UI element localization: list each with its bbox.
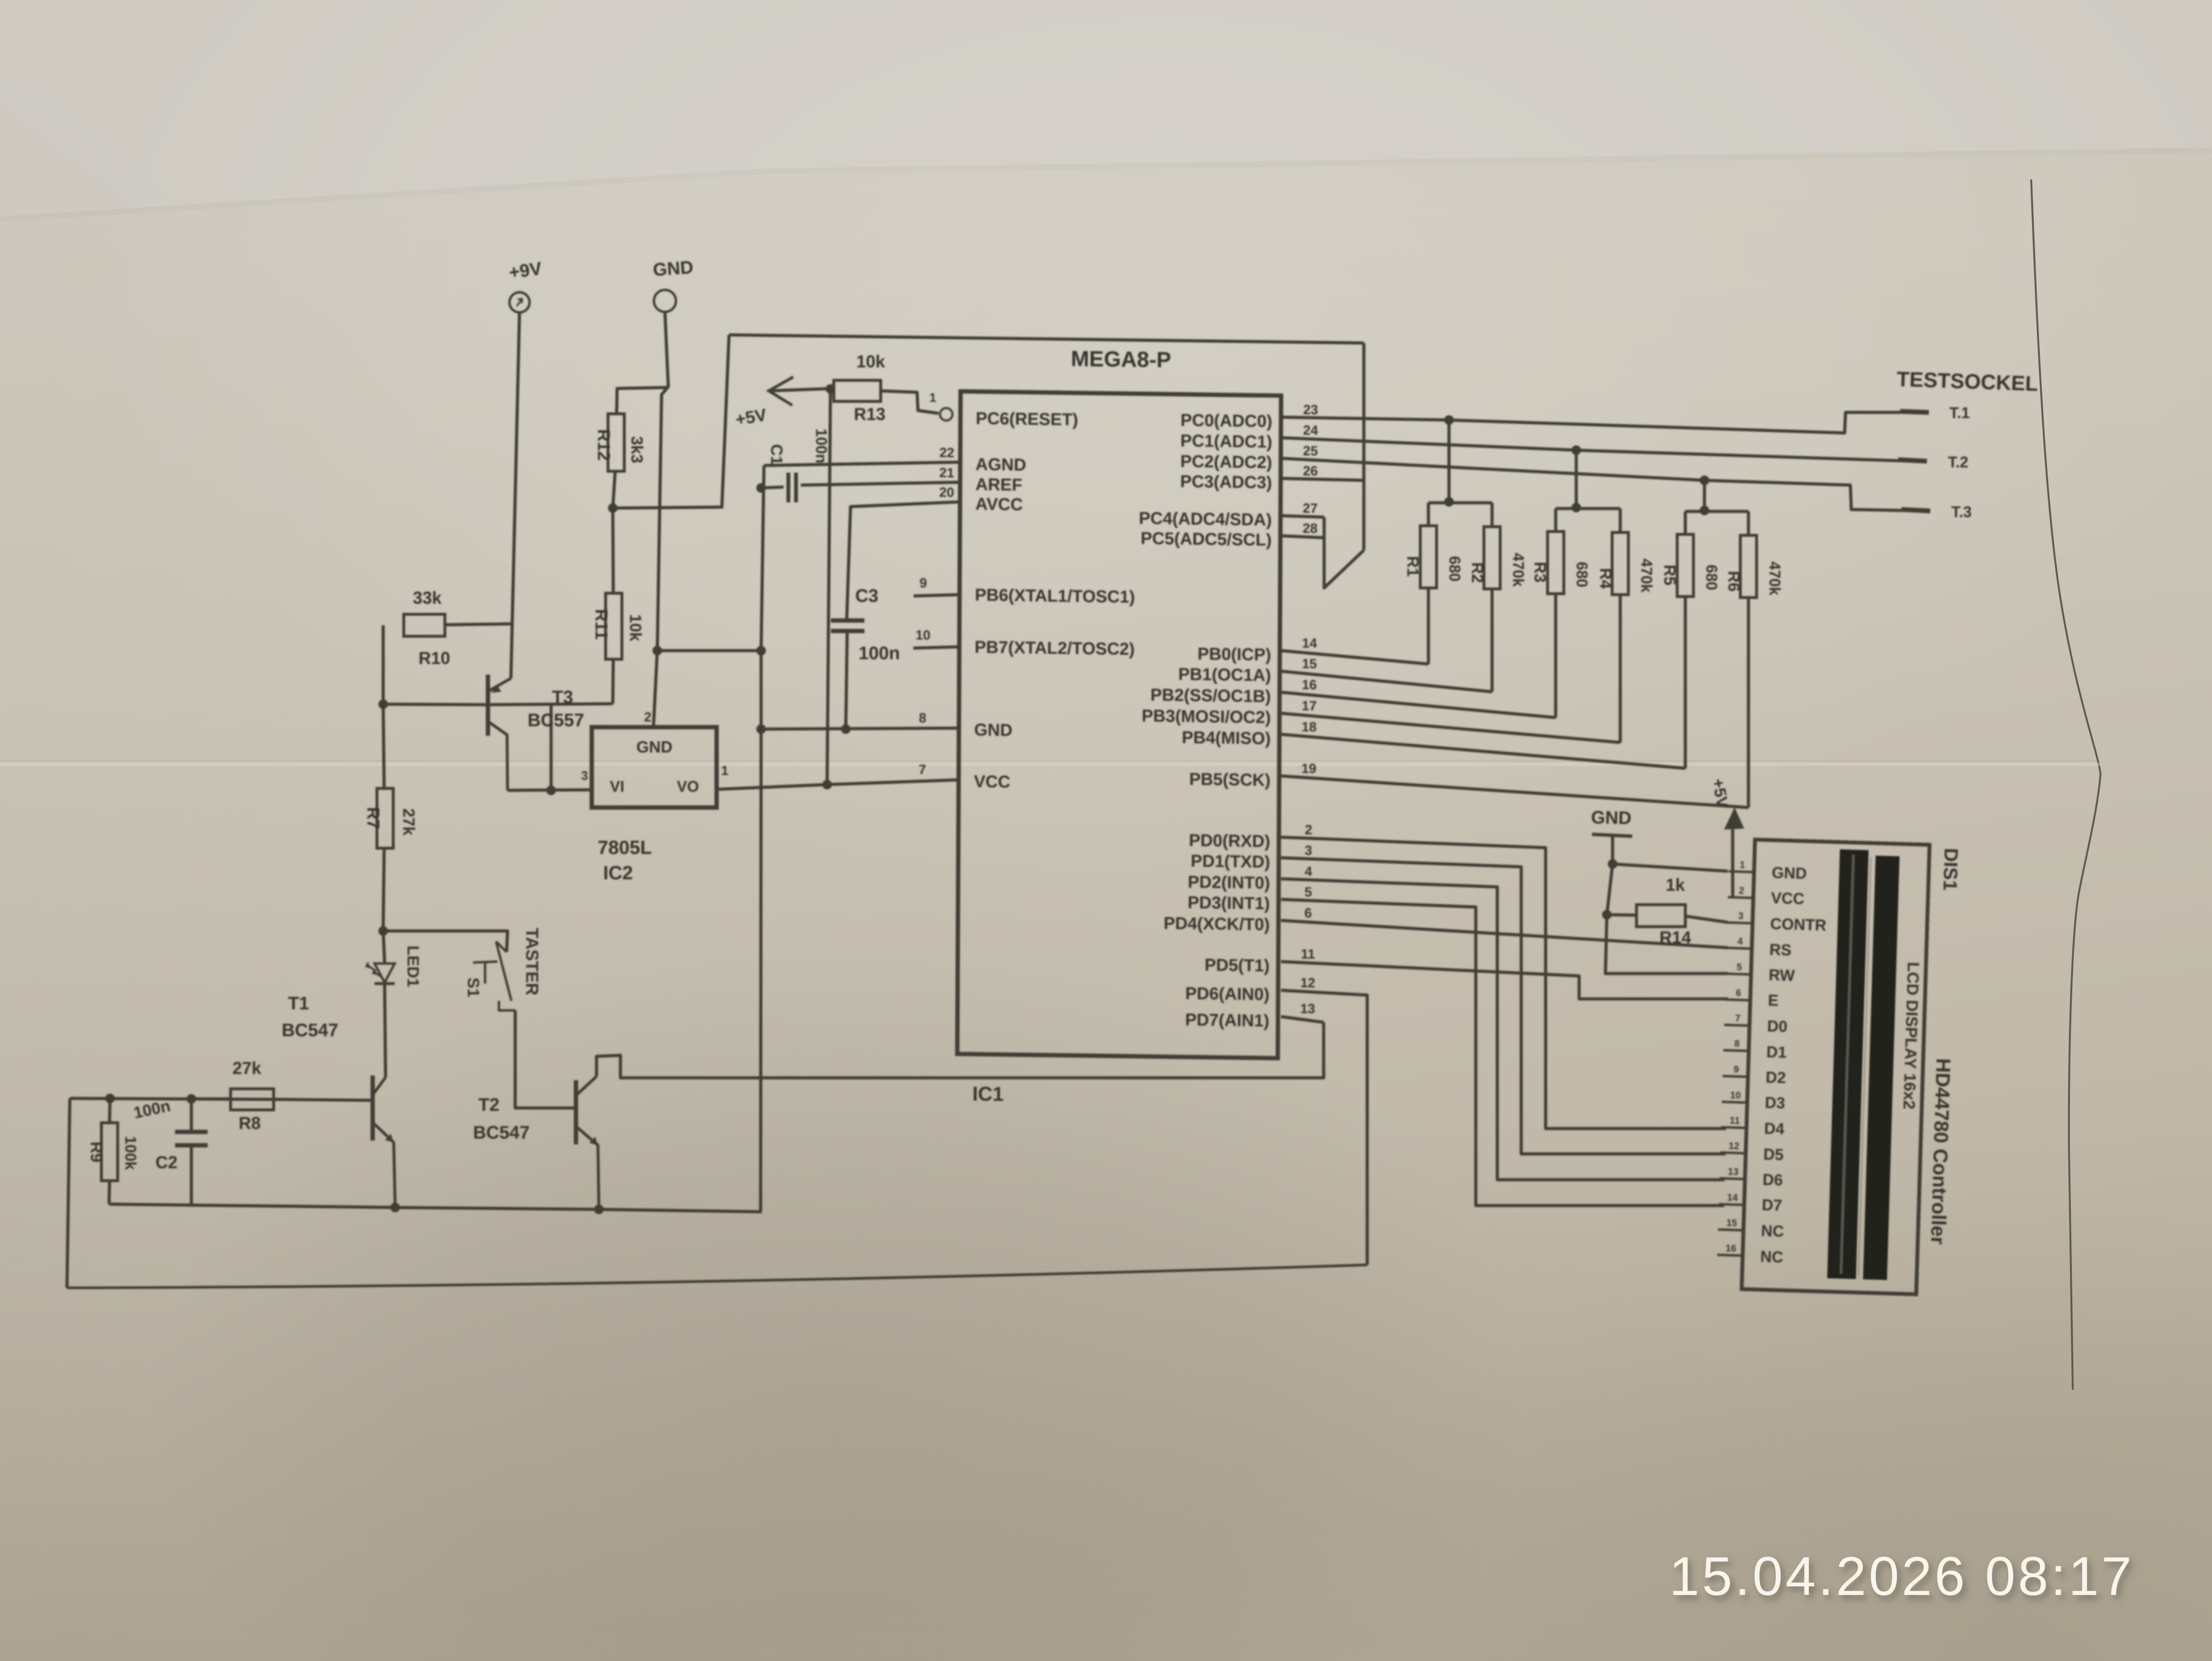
wire GND column x1590 xyxy=(761,465,764,1212)
wire R3/R4 bracket xyxy=(1556,507,1620,510)
photographer shadow bottom-left xyxy=(144,942,1531,1661)
svg-text:E: E xyxy=(1768,991,1779,1009)
svg-text:D7: D7 xyxy=(1762,1196,1782,1214)
svg-text:PB3(MOSI/OC2): PB3(MOSI/OC2) xyxy=(1142,706,1271,727)
LCD pin 16 NC xyxy=(1717,1255,1743,1256)
resistor R5 680 xyxy=(1677,534,1693,597)
svg-text:R1: R1 xyxy=(1404,556,1422,576)
LED LED1 xyxy=(383,931,385,963)
wire R7 column xyxy=(383,704,384,788)
capacitor C1 100n (AREF) xyxy=(761,487,784,488)
svg-text:20: 20 xyxy=(939,485,954,499)
svg-text:17: 17 xyxy=(1302,698,1316,713)
svg-text:TASTER: TASTER xyxy=(522,928,542,995)
LCD glass row 1 (dark bar) xyxy=(1827,849,1869,1279)
resistor R9 100k xyxy=(110,1098,110,1123)
wire R8 left xyxy=(191,1097,231,1101)
wire R14 right to LCD CONTR xyxy=(1685,916,1728,922)
svg-text:27: 27 xyxy=(1303,501,1317,516)
svg-text:D1: D1 xyxy=(1766,1043,1787,1061)
resistor R14 1k xyxy=(1637,905,1685,927)
svg-text:10: 10 xyxy=(916,628,930,642)
wire pin19 PB5 row to R6 xyxy=(1281,776,1748,808)
svg-text:AVCC: AVCC xyxy=(975,494,1023,514)
wire pin16 PB2 row to R3 xyxy=(1281,692,1556,718)
wire T3 collector to 7805 VI xyxy=(508,790,592,790)
wire pin26 PC3 to frame edge xyxy=(1281,478,1364,480)
svg-text:D0: D0 xyxy=(1767,1017,1788,1035)
svg-text:100n: 100n xyxy=(813,429,830,464)
svg-text:PD4(XCK/T0): PD4(XCK/T0) xyxy=(1163,913,1270,934)
wire R2 bottom to pin15 row xyxy=(1491,589,1494,692)
wire pin14 PB0 row to R1 xyxy=(1281,651,1428,664)
svg-text:D6: D6 xyxy=(1762,1171,1783,1189)
resistor R13 10k xyxy=(834,380,881,401)
wire IC1 frame top (R12 net to PC5) xyxy=(729,335,1364,343)
svg-text:15.04.2026 08:17: 15.04.2026 08:17 xyxy=(1669,1546,2134,1607)
svg-text:14: 14 xyxy=(1727,1193,1738,1204)
push button S1 TASTER xyxy=(496,941,507,952)
wire T2 collector staircase to PD7 net xyxy=(597,1022,1324,1078)
wire pin3 PD1 to LCD D5 xyxy=(1281,858,1725,1154)
svg-text:10k: 10k xyxy=(856,352,885,371)
svg-text:1: 1 xyxy=(721,763,729,778)
svg-text:PD0(RXD): PD0(RXD) xyxy=(1189,830,1270,851)
svg-text:D3: D3 xyxy=(1765,1094,1785,1112)
wire R12 bottom to junction xyxy=(613,471,615,508)
terminal T.2 xyxy=(1898,460,1927,461)
svg-text:4: 4 xyxy=(1737,936,1743,947)
svg-text:4: 4 xyxy=(1305,864,1312,879)
voltage regulator IC2 7805L xyxy=(592,727,717,808)
wire +5V column to VCC rail xyxy=(827,389,830,785)
wire GND to LCD pin1 xyxy=(1613,864,1728,871)
LCD pin 3 CONTR xyxy=(1727,922,1753,923)
wire R7 bottom to LED/S1 junction xyxy=(383,848,384,930)
svg-text:23: 23 xyxy=(1303,402,1318,417)
svg-text:GND: GND xyxy=(1771,864,1807,882)
resistor R1 680 xyxy=(1420,526,1437,588)
svg-text:9: 9 xyxy=(1734,1064,1739,1075)
svg-text:R6: R6 xyxy=(1725,571,1743,591)
svg-text:R11: R11 xyxy=(592,609,611,640)
wire pin17 PB3 row to R4 xyxy=(1281,713,1620,742)
resistor R4 470k xyxy=(1612,532,1628,595)
wire LED1 to T1 collector xyxy=(385,984,386,1077)
wire R5 bottom to pin18 row xyxy=(1684,597,1687,768)
reset pin inversion circle pin1 xyxy=(940,408,952,421)
svg-text:R9: R9 xyxy=(87,1141,105,1162)
svg-text:GND: GND xyxy=(1591,808,1632,828)
wire junction to IC1 frame left xyxy=(613,335,729,508)
wire S1 to T2 base xyxy=(515,1010,574,1108)
svg-text:15: 15 xyxy=(1726,1218,1737,1229)
svg-text:3k3: 3k3 xyxy=(628,436,646,464)
svg-text:R10: R10 xyxy=(419,648,450,668)
capacitor C3 100n xyxy=(831,619,864,623)
svg-text:16: 16 xyxy=(1725,1243,1736,1254)
svg-text:1: 1 xyxy=(929,390,936,405)
resistor R8 27k xyxy=(231,1089,274,1110)
svg-text:24: 24 xyxy=(1303,423,1318,438)
svg-text:T2: T2 xyxy=(478,1095,499,1115)
wire GND cross row xyxy=(657,649,761,653)
LCD pin 6 E xyxy=(1725,999,1750,1000)
svg-text:AGND: AGND xyxy=(975,454,1026,474)
wire pin27 stub xyxy=(1281,516,1324,517)
svg-text:DIS1: DIS1 xyxy=(1939,848,1962,891)
power terminal GND xyxy=(654,290,676,312)
svg-text:D2: D2 xyxy=(1765,1068,1786,1086)
svg-text:13: 13 xyxy=(1300,1001,1315,1016)
wire R5/R6 bracket xyxy=(1685,510,1748,513)
svg-text:RS: RS xyxy=(1769,941,1792,959)
svg-text:CONTR: CONTR xyxy=(1770,915,1827,934)
svg-text:100n: 100n xyxy=(859,643,900,664)
svg-text:LED1: LED1 xyxy=(404,946,422,987)
svg-text:C2: C2 xyxy=(155,1152,177,1172)
svg-text:GND: GND xyxy=(636,738,673,756)
svg-text:MEGA8-P: MEGA8-P xyxy=(1071,346,1171,372)
svg-text:T.1: T.1 xyxy=(1949,404,1970,421)
svg-text:26: 26 xyxy=(1303,464,1318,478)
svg-text:PC1(ADC1): PC1(ADC1) xyxy=(1180,431,1272,452)
svg-text:6: 6 xyxy=(1305,906,1312,920)
svg-text:10: 10 xyxy=(1730,1090,1741,1101)
LCD display DIS1 box xyxy=(1742,840,1930,1294)
terminal T.1 xyxy=(1900,411,1929,412)
terminal T.3 xyxy=(1902,509,1930,511)
svg-text:7: 7 xyxy=(1735,1013,1741,1024)
wire pin28 stub xyxy=(1281,536,1324,538)
svg-text:PD2(INT0): PD2(INT0) xyxy=(1188,872,1270,892)
wire R3 bottom to pin16 row xyxy=(1554,594,1558,718)
wire pin18 PB4 row to R5 xyxy=(1281,734,1685,768)
wire C3 bottom xyxy=(846,631,847,729)
wire input node top xyxy=(70,1098,275,1099)
wire pin12 PD6 down and around xyxy=(1281,990,1367,1265)
LCD pin 2 VCC xyxy=(1728,897,1753,898)
svg-text:VCC: VCC xyxy=(1771,889,1805,908)
svg-text:R4: R4 xyxy=(1596,568,1615,589)
svg-text:R3: R3 xyxy=(1531,562,1549,582)
svg-text:27k: 27k xyxy=(399,808,418,836)
svg-text:PB4(MISO): PB4(MISO) xyxy=(1182,727,1271,748)
svg-text:11: 11 xyxy=(1729,1116,1740,1127)
wire pin15 PB1 row to R2 xyxy=(1281,671,1492,692)
svg-text:AREF: AREF xyxy=(975,474,1022,494)
svg-text:R5: R5 xyxy=(1660,565,1679,585)
svg-text:C1: C1 xyxy=(767,444,785,465)
svg-text:2: 2 xyxy=(1739,886,1745,896)
svg-text:R2: R2 xyxy=(1468,562,1486,583)
svg-text:16: 16 xyxy=(1302,677,1316,692)
wire drop to R3/R4 bracket xyxy=(1575,450,1578,508)
svg-text:PB2(SS/OC1B): PB2(SS/OC1B) xyxy=(1150,685,1271,706)
svg-text:GND: GND xyxy=(974,720,1012,740)
svg-text:27k: 27k xyxy=(232,1058,262,1078)
LCD pin 12 D5 xyxy=(1720,1152,1746,1153)
LCD pin 14 D7 xyxy=(1719,1204,1744,1205)
svg-text:33k: 33k xyxy=(413,588,442,608)
svg-text:NC: NC xyxy=(1761,1222,1784,1240)
svg-text:3: 3 xyxy=(581,768,588,783)
wire +5V rail (7805 VO to VCC pin7) xyxy=(717,780,961,789)
LCD pin 11 D4 xyxy=(1721,1127,1747,1128)
svg-text:PD7(AIN1): PD7(AIN1) xyxy=(1185,1009,1269,1030)
svg-text:25: 25 xyxy=(1303,443,1318,458)
svg-text:PB6(XTAL1/TOSC1): PB6(XTAL1/TOSC1) xyxy=(975,585,1135,606)
wire AVCC to C3 xyxy=(847,502,961,620)
wire R6 bottom to pin19 row xyxy=(1747,598,1750,808)
wire R10 left / T3 base column xyxy=(382,625,385,704)
wire bottom long (PD6 net) xyxy=(67,1265,1367,1288)
resistor R6 470k xyxy=(1740,535,1757,598)
svg-text:NC: NC xyxy=(1760,1248,1783,1266)
wire pin2 PD0 to LCD D4 xyxy=(1281,837,1726,1129)
wire pin4 PD2 to LCD D6 xyxy=(1281,879,1725,1180)
wire GND terminal down to 7805 xyxy=(653,312,668,727)
svg-text:470k: 470k xyxy=(1638,558,1655,592)
LCD glass row 2 (dark bar) xyxy=(1863,856,1900,1280)
svg-text:T3: T3 xyxy=(552,687,573,708)
svg-text:15: 15 xyxy=(1302,656,1317,671)
svg-text:7: 7 xyxy=(918,762,926,777)
svg-text:GND: GND xyxy=(653,257,694,280)
svg-text:3: 3 xyxy=(1738,911,1744,921)
svg-text:IC2: IC2 xyxy=(603,863,633,884)
wire drop to R5/R6 bracket xyxy=(1703,480,1706,510)
svg-text:VO: VO xyxy=(677,778,699,795)
LCD pin 15 NC xyxy=(1718,1229,1744,1230)
svg-text:22: 22 xyxy=(940,445,954,460)
svg-text:PD5(T1): PD5(T1) xyxy=(1205,955,1270,975)
resistor R3 680 xyxy=(1548,532,1564,594)
svg-text:PC4(ADC4/SDA): PC4(ADC4/SDA) xyxy=(1139,508,1272,530)
wire R1 bottom to pin14 row xyxy=(1427,588,1430,664)
svg-text:10k: 10k xyxy=(626,614,644,642)
paper fold crease xyxy=(0,763,2101,766)
wire left edge down xyxy=(67,1098,70,1288)
svg-text:13: 13 xyxy=(1728,1167,1739,1178)
LCD pin 1 GND xyxy=(1729,871,1754,872)
wire pin24 PC1 to testsockel T.2 xyxy=(1281,438,1898,461)
wire R11 bottom to T3 base xyxy=(613,659,613,704)
svg-text:T1: T1 xyxy=(288,994,309,1014)
svg-text:28: 28 xyxy=(1303,521,1317,536)
wire pins 27/28 connection step xyxy=(1324,517,1364,588)
transistor T2 BC547 xyxy=(574,1080,578,1144)
svg-text:VCC: VCC xyxy=(974,771,1010,791)
svg-text:R14: R14 xyxy=(1659,928,1691,947)
resistor R10 33k xyxy=(404,614,445,636)
wire AGND row xyxy=(764,462,961,465)
wire GND column to R14 and RW xyxy=(1605,864,1728,974)
svg-text:IC1: IC1 xyxy=(973,1082,1004,1105)
svg-text:PC5(ADC5/SCL): PC5(ADC5/SCL) xyxy=(1140,528,1272,550)
light sheen upper middle xyxy=(72,0,2212,909)
svg-text:680: 680 xyxy=(1446,556,1463,581)
LCD pin 4 RS xyxy=(1726,948,1752,949)
svg-text:12: 12 xyxy=(1300,975,1315,990)
svg-text:VI: VI xyxy=(610,778,624,795)
svg-text:R7: R7 xyxy=(364,807,383,829)
resistor R7 27k xyxy=(377,788,393,848)
svg-text:PC2(ADC2): PC2(ADC2) xyxy=(1180,451,1272,472)
svg-text:14: 14 xyxy=(1302,636,1317,651)
svg-text:12: 12 xyxy=(1728,1141,1739,1152)
wire pin5 PD3 to LCD D7 xyxy=(1281,899,1724,1206)
wire GND rail xyxy=(109,1204,762,1212)
svg-text:21: 21 xyxy=(940,465,954,480)
wire R14 left lead xyxy=(1607,915,1637,915)
LCD pin 13 D6 xyxy=(1720,1178,1745,1179)
svg-text:BC557: BC557 xyxy=(528,710,584,731)
svg-text:6: 6 xyxy=(1736,988,1741,998)
svg-text:D5: D5 xyxy=(1763,1145,1784,1163)
wire pin23 PC0 to testsockel T.1 xyxy=(1281,412,1900,433)
wire drop to R1/R2 bracket xyxy=(1448,420,1451,502)
svg-text:PB0(ICP): PB0(ICP) xyxy=(1197,644,1271,664)
svg-text:PC3(ADC3): PC3(ADC3) xyxy=(1180,471,1272,492)
svg-text:18: 18 xyxy=(1302,720,1316,734)
svg-text:2: 2 xyxy=(1305,822,1313,837)
LCD pin 9 D2 xyxy=(1723,1076,1748,1077)
wire R1/R2 bracket xyxy=(1428,501,1492,505)
wire +9V to T3 emitter xyxy=(511,312,520,678)
capacitor C2 100n xyxy=(190,1099,193,1131)
svg-text:C3: C3 xyxy=(855,586,879,606)
svg-text:2: 2 xyxy=(644,709,652,724)
wire base junction to T3 xyxy=(383,704,490,705)
svg-text:PD6(AIN0): PD6(AIN0) xyxy=(1185,983,1270,1004)
svg-text:8: 8 xyxy=(1734,1039,1740,1049)
svg-text:D4: D4 xyxy=(1764,1119,1785,1138)
svg-text:8: 8 xyxy=(919,710,927,725)
svg-text:1k: 1k xyxy=(1666,875,1685,895)
svg-text:680: 680 xyxy=(1703,565,1720,590)
transistor T3 BC557 xyxy=(486,675,490,736)
svg-text:PC0(ADC0): PC0(ADC0) xyxy=(1181,410,1272,431)
microcontroller IC1 MEGA8-P box xyxy=(957,391,1281,1058)
svg-text:100k: 100k xyxy=(122,1136,139,1170)
svg-text:PB5(SCK): PB5(SCK) xyxy=(1189,769,1271,789)
wire junction to S1 branch xyxy=(383,931,508,952)
svg-text:9: 9 xyxy=(919,576,927,590)
wire +5V arrow to R13 xyxy=(769,388,834,391)
wire R13 to reset pin xyxy=(881,391,939,413)
svg-text:S1: S1 xyxy=(464,977,482,997)
svg-text:1: 1 xyxy=(1739,860,1745,870)
svg-text:470k: 470k xyxy=(1510,553,1527,587)
svg-text:R12: R12 xyxy=(594,429,614,461)
svg-text:BC547: BC547 xyxy=(282,1020,338,1041)
svg-text:680: 680 xyxy=(1573,562,1591,587)
net arrow +5V (reset pullup) xyxy=(769,377,793,405)
svg-text:PC6(RESET): PC6(RESET) xyxy=(976,408,1078,429)
wire R4 bottom to pin17 row xyxy=(1619,595,1622,742)
svg-text:PB1(OC1A): PB1(OC1A) xyxy=(1178,664,1271,685)
transistor T1 BC547 xyxy=(371,1075,375,1141)
page right edge xyxy=(2031,179,2101,1390)
svg-text:3: 3 xyxy=(1305,843,1312,858)
svg-text:TESTSOCKEL: TESTSOCKEL xyxy=(1896,367,2038,396)
svg-text:11: 11 xyxy=(1301,947,1315,962)
wire pin6 PD4 to LCD RS xyxy=(1281,920,1728,948)
svg-text:R8: R8 xyxy=(239,1113,261,1133)
LCD pin 8 D1 xyxy=(1724,1050,1749,1051)
resistor R11 10k xyxy=(613,508,613,593)
svg-text:RW: RW xyxy=(1769,966,1795,985)
svg-text:PB7(XTAL2/TOSC2): PB7(XTAL2/TOSC2) xyxy=(974,637,1135,658)
svg-text:PD3(INT1): PD3(INT1) xyxy=(1188,892,1270,913)
power terminal +9V xyxy=(509,292,530,312)
svg-text:5: 5 xyxy=(1305,885,1312,899)
LCD pin 10 D3 xyxy=(1722,1102,1747,1103)
wire GND row to pin8 xyxy=(761,728,961,729)
resistor R2 470k xyxy=(1484,527,1500,589)
svg-text:R13: R13 xyxy=(854,404,885,424)
svg-text:5: 5 xyxy=(1736,962,1742,973)
wire pin25 PC2 to testsockel T.3 xyxy=(1281,458,1902,510)
wire IC1 frame right edge xyxy=(1362,343,1366,550)
LCD pin 7 D0 xyxy=(1724,1025,1749,1026)
wire R10 right to +9V line xyxy=(445,624,513,625)
svg-text:T.3: T.3 xyxy=(1951,503,1972,520)
wire pin11 PD5 to LCD E xyxy=(1281,962,1728,999)
svg-text:7805L: 7805L xyxy=(597,837,652,858)
svg-text:BC547: BC547 xyxy=(473,1123,530,1143)
wire base row down to VI row xyxy=(550,704,553,790)
wire pin13 PD7 stub xyxy=(1281,1017,1324,1022)
wire T1 base row xyxy=(275,1099,372,1100)
svg-text:470k: 470k xyxy=(1766,561,1783,595)
svg-text:19: 19 xyxy=(1301,761,1316,776)
svg-text:PD1(TXD): PD1(TXD) xyxy=(1191,851,1270,872)
resistor R12 3k3 xyxy=(617,388,667,414)
svg-text:T.2: T.2 xyxy=(1948,454,1969,471)
LCD pin 5 RW xyxy=(1725,974,1751,974)
net arrow +5V (LCD supply) xyxy=(1731,828,1735,897)
background surface above paper top edge xyxy=(0,0,2212,216)
